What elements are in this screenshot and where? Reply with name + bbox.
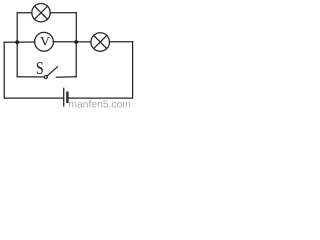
svg-text:S: S xyxy=(36,59,44,78)
svg-text:manfen5.com: manfen5.com xyxy=(69,100,131,111)
svg-text:V: V xyxy=(40,34,50,48)
